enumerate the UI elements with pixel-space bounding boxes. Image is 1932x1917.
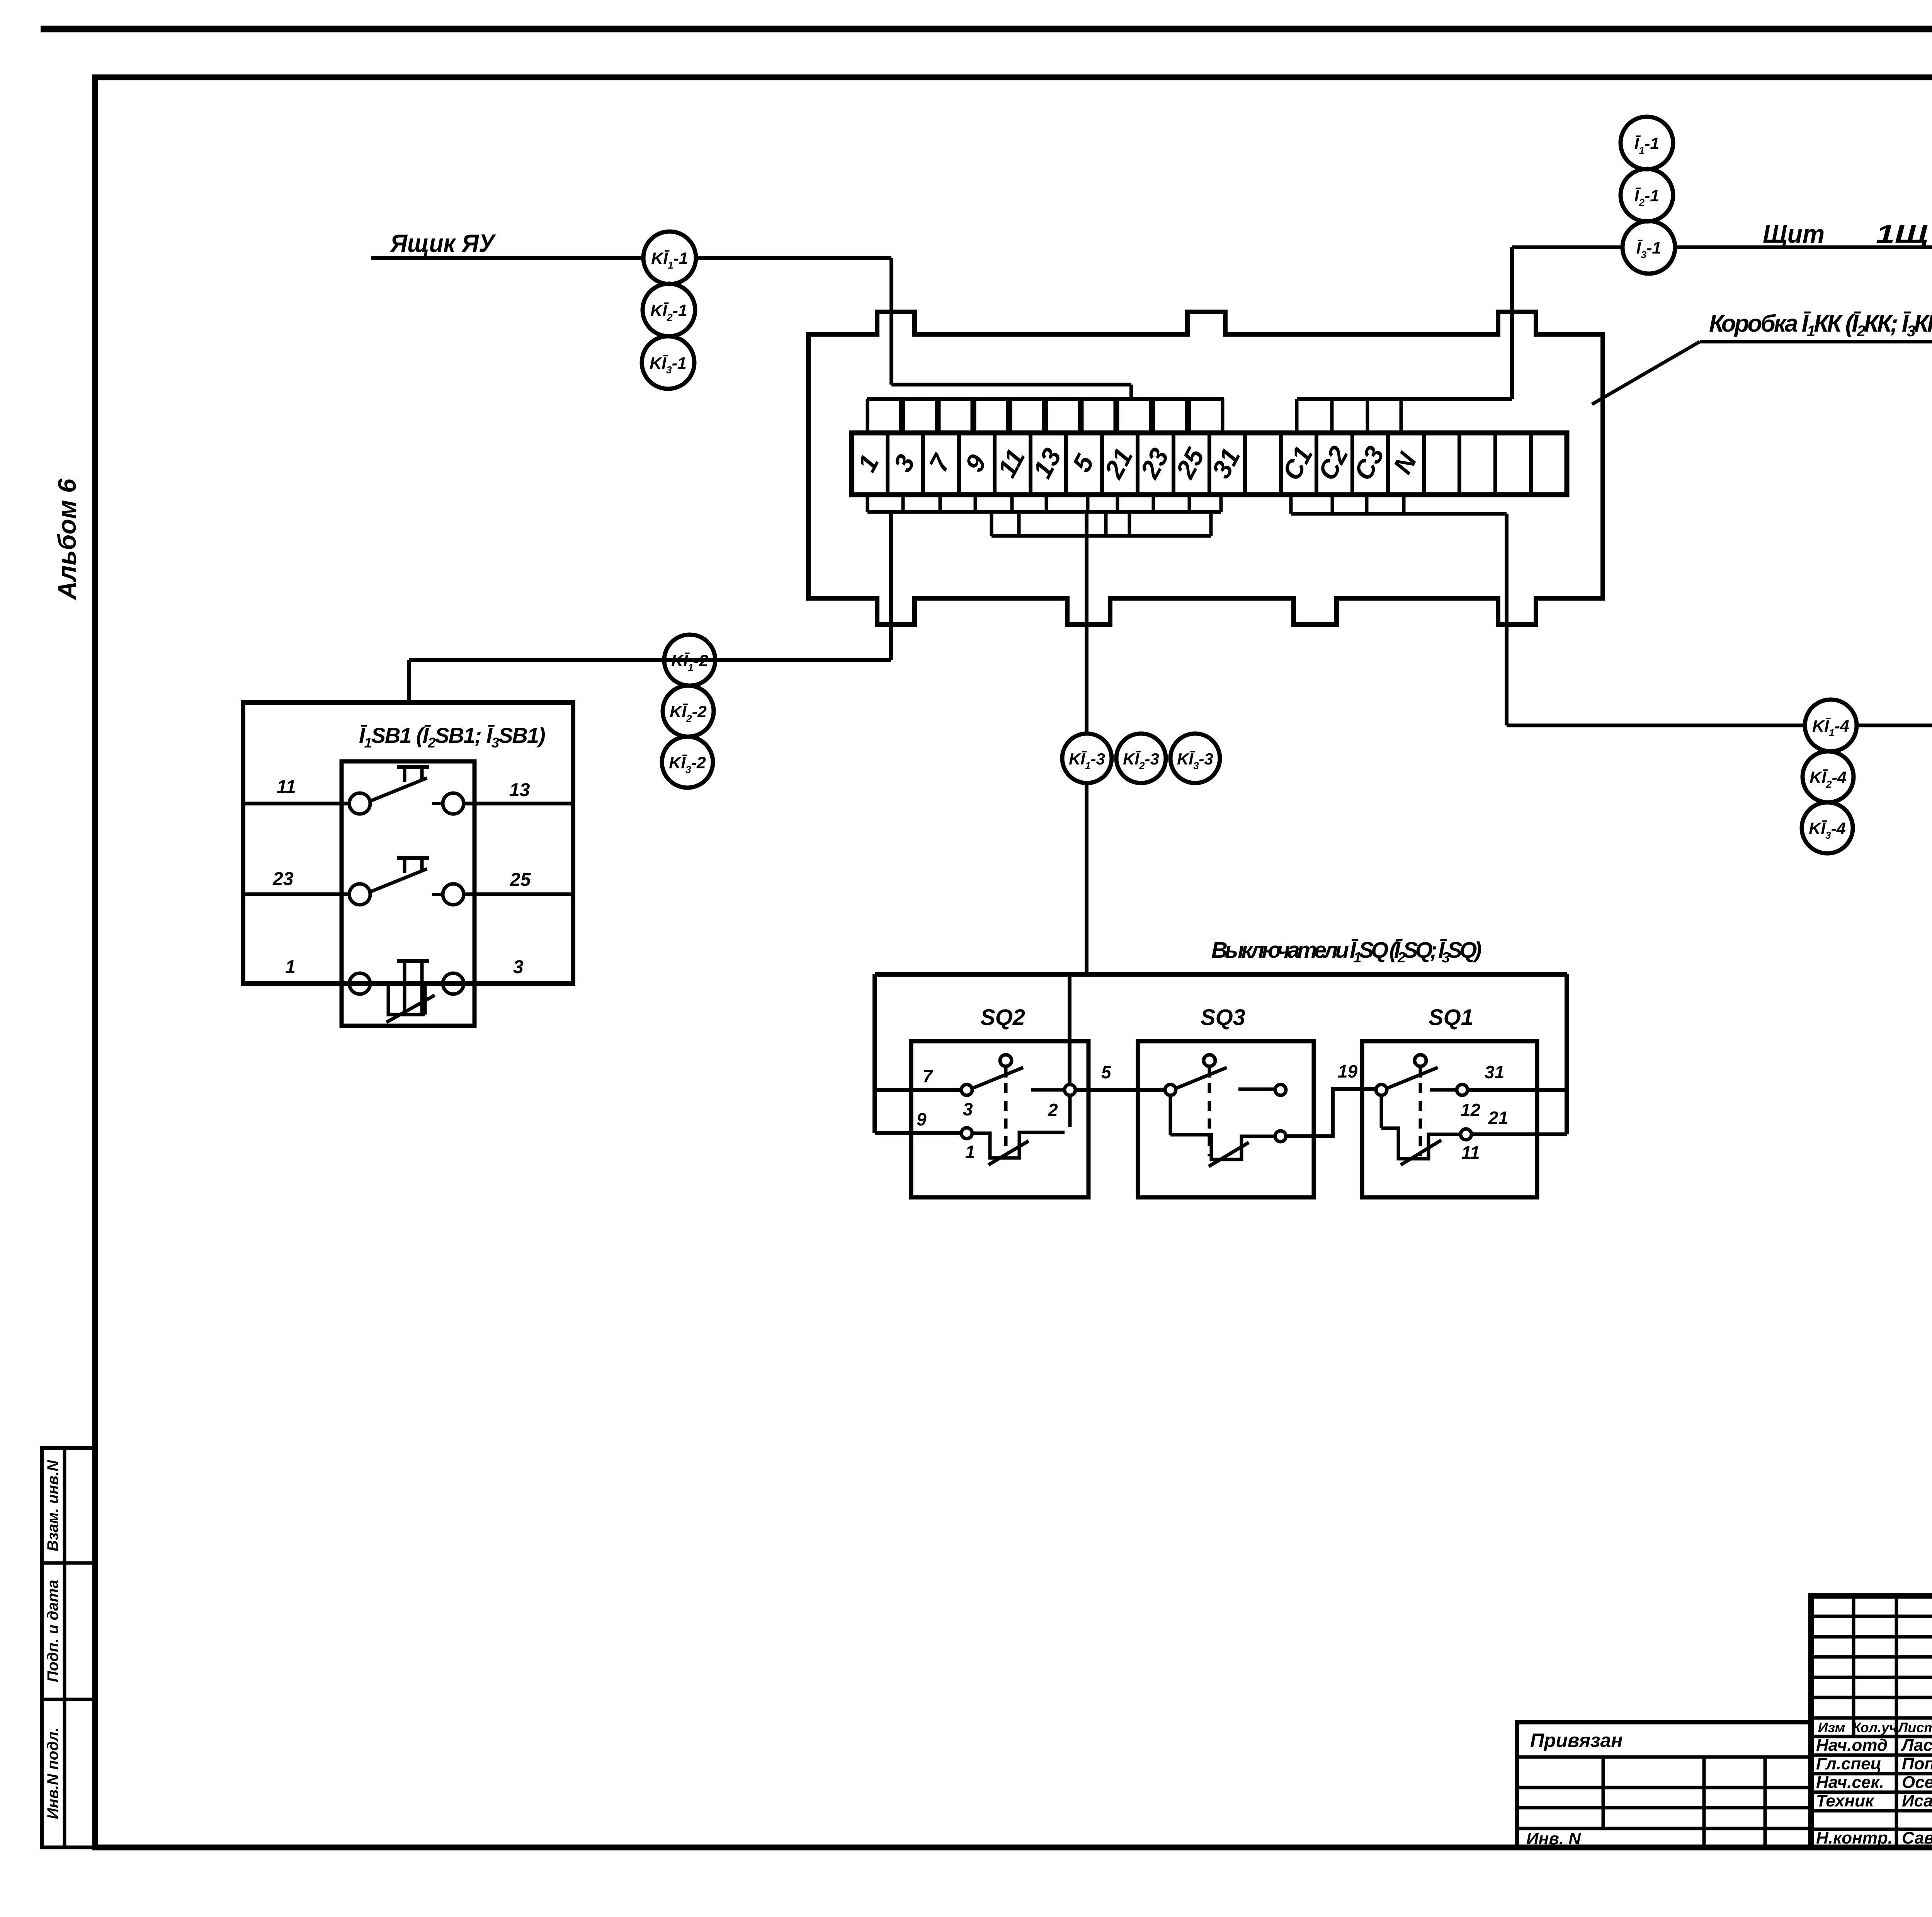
svg-text:Коробка Ī1КК (Ī2КК; Ī3КК): Коробка Ī1КК (Ī2КК; Ī3КК) xyxy=(1709,310,1932,340)
terminal N xyxy=(1388,447,1423,478)
signature rows grid xyxy=(1811,1737,1932,1847)
junction box Korobka I1KK outline xyxy=(808,312,1603,625)
cable marker KI1-1 xyxy=(643,232,696,284)
SQ1 inner box xyxy=(1362,1041,1537,1197)
cable marker KI3-3 xyxy=(1170,734,1220,783)
terminal 5 xyxy=(1067,449,1100,477)
svg-text:Нач.отд: Нач.отд xyxy=(1816,1736,1888,1755)
svg-text:7: 7 xyxy=(923,1066,934,1086)
svg-text:19: 19 xyxy=(1338,1061,1358,1081)
cable marker KI2-1 xyxy=(643,284,695,336)
label SQ1 xyxy=(1429,1005,1473,1030)
wire box to KI-2 row xyxy=(409,512,891,703)
title block revision grid xyxy=(1811,1596,1932,1847)
wire Yashchik YaU to KI1-1 xyxy=(371,256,643,260)
label Shchit 1Shch xyxy=(1763,220,1928,248)
wire box to KI-3 xyxy=(1085,512,1088,734)
revision header labels xyxy=(1818,1720,1932,1735)
svg-text:Ī1-1: Ī1-1 xyxy=(1634,134,1660,156)
wire box to KI-4 xyxy=(1507,514,1804,725)
stamp label Inv N podl xyxy=(44,1727,61,1819)
svg-text:Техник: Техник xyxy=(1816,1791,1875,1810)
pushbutton box I1SB1 outline xyxy=(243,703,573,984)
svg-text:Выключатели Ī1SQ (Ī2SQ; Ī3SQ): Выключатели Ī1SQ (Ī2SQ; Ī3SQ) xyxy=(1211,938,1481,966)
wire KI1-4 to motor xyxy=(1857,725,1932,763)
svg-text:Привязан: Привязан xyxy=(1530,1730,1623,1751)
svg-text:Ī2-1: Ī2-1 xyxy=(1634,187,1660,208)
svg-text:Н.контр.: Н.контр. xyxy=(1816,1828,1893,1847)
svg-text:25: 25 xyxy=(510,870,531,890)
top comb right group and bus to Shchit wire xyxy=(1297,399,1512,433)
SQ2 contact xyxy=(875,1055,1075,1165)
svg-text:Гл.спец: Гл.спец xyxy=(1816,1754,1881,1773)
svg-text:12: 12 xyxy=(1461,1100,1481,1120)
signature rows text xyxy=(1816,1736,1932,1847)
title block outer xyxy=(1811,1596,1932,1847)
terminal 23 xyxy=(1134,443,1175,484)
wire 19 xyxy=(1286,1061,1376,1136)
label Yashchik YaU xyxy=(389,229,496,257)
label SQ3 xyxy=(1201,1005,1245,1030)
limit switch assembly outer box xyxy=(875,974,1567,1134)
svg-text:2: 2 xyxy=(1048,1100,1058,1120)
wire 5 xyxy=(1075,1062,1165,1090)
SQ3 contact xyxy=(1165,1055,1286,1166)
svg-text:Нач.сек.: Нач.сек. xyxy=(1816,1773,1884,1792)
leader line to box xyxy=(1592,342,1700,404)
cable marker KI3-4 xyxy=(1802,802,1853,853)
svg-text:1Щ: 1Щ xyxy=(1876,220,1928,248)
svg-text:Ласыкин: Ласыкин xyxy=(1901,1736,1932,1755)
label Vyklyuchateli SQ xyxy=(1211,938,1481,966)
wire KI1-3 down to SQ box xyxy=(1070,783,1087,1084)
stamp label Podp i data xyxy=(44,1580,61,1682)
bottom comb under C1..N xyxy=(1291,495,1507,514)
terminal 11 xyxy=(992,444,1031,482)
terminal 31 xyxy=(1206,443,1246,483)
pushbutton inner body xyxy=(342,761,474,1026)
SB1 contact row 23-25 xyxy=(243,858,573,905)
svg-text:Изм: Изм xyxy=(1818,1720,1845,1735)
svg-text:Щит: Щит xyxy=(1763,220,1825,248)
terminal 13 xyxy=(1027,443,1067,483)
svg-text:SQ3: SQ3 xyxy=(1201,1005,1245,1030)
SQ1 contact xyxy=(1376,1055,1508,1165)
cable marker KI1-4 xyxy=(1805,700,1857,751)
SQ2 inner box xyxy=(911,1041,1088,1197)
svg-text:13: 13 xyxy=(509,780,530,800)
wire Shchit 1Shch riser xyxy=(1512,247,1623,399)
cable marker I3-1 xyxy=(1622,221,1675,274)
terminal C1 xyxy=(1277,441,1318,485)
cable marker KI1-3 xyxy=(1062,734,1112,783)
wire 31 to box edge xyxy=(1468,1088,1567,1092)
svg-text:SQ1: SQ1 xyxy=(1429,1005,1473,1030)
stamp label Vzam inv xyxy=(44,1460,61,1551)
bottom comb bus 2 xyxy=(992,512,1211,536)
wire 21 to box edge xyxy=(1471,1132,1567,1136)
terminal 25 xyxy=(1170,443,1210,484)
svg-text:Инв.N подл.: Инв.N подл. xyxy=(44,1727,61,1819)
svg-text:Ī3-1: Ī3-1 xyxy=(1636,239,1662,260)
svg-text:Попов: Попов xyxy=(1902,1754,1932,1773)
cable marker KI2-3 xyxy=(1116,734,1166,783)
svg-text:Подп. и дата: Подп. и дата xyxy=(44,1580,61,1682)
SB1 contact row 1-3 xyxy=(243,957,573,1022)
album label xyxy=(53,478,81,600)
svg-text:5: 5 xyxy=(1101,1062,1112,1082)
svg-text:Лист: Лист xyxy=(1897,1720,1932,1735)
cable marker KI1-2 xyxy=(664,635,715,686)
svg-text:1: 1 xyxy=(285,957,296,977)
SQ3 inner box xyxy=(1138,1041,1314,1197)
cable marker KI3-2 xyxy=(662,737,713,788)
cable marker KI3-1 xyxy=(642,336,694,389)
terminal 3 xyxy=(888,450,921,477)
bottom comb bus 1 xyxy=(867,495,1221,512)
label SQ2 xyxy=(980,1005,1025,1030)
cable marker KI2-2 xyxy=(663,686,714,737)
svg-text:21: 21 xyxy=(1488,1108,1508,1128)
top comb left group xyxy=(867,399,1224,433)
svg-text:1: 1 xyxy=(965,1142,975,1162)
label Korobka I1KK xyxy=(1700,310,1932,342)
paper top edge line xyxy=(41,26,1932,32)
SB1 contact row 11-13 xyxy=(243,767,573,814)
svg-text:Исаева: Исаева xyxy=(1902,1791,1932,1810)
svg-text:SQ2: SQ2 xyxy=(980,1005,1025,1030)
svg-text:3: 3 xyxy=(963,1099,973,1119)
terminal strip body xyxy=(852,433,1567,495)
wire KI1-1 to box drop xyxy=(696,258,1131,400)
cable marker I2-1 xyxy=(1621,169,1673,221)
svg-text:Савченко: Савченко xyxy=(1902,1828,1932,1847)
svg-text:Взам. инв.N: Взам. инв.N xyxy=(44,1460,61,1551)
cable marker KI2-4 xyxy=(1803,751,1854,802)
side stamp column xyxy=(42,1448,95,1847)
terminal C3 xyxy=(1348,441,1390,485)
terminal 1 xyxy=(852,450,885,477)
svg-text:Кол.уч: Кол.уч xyxy=(1852,1720,1897,1735)
terminal 21 xyxy=(1099,443,1139,484)
terminal 7 xyxy=(923,449,957,477)
wire I3-1 to panel xyxy=(1675,245,1932,249)
terminal 9 xyxy=(959,450,992,477)
svg-text:3: 3 xyxy=(513,957,524,977)
svg-text:Альбом 6: Альбом 6 xyxy=(53,478,81,600)
svg-text:9: 9 xyxy=(917,1109,927,1129)
svg-text:Инв. N: Инв. N xyxy=(1526,1829,1581,1848)
cable marker I1-1 xyxy=(1621,117,1673,169)
svg-text:11: 11 xyxy=(277,777,296,797)
svg-text:11: 11 xyxy=(1461,1142,1480,1163)
svg-text:Оселедец: Оселедец xyxy=(1902,1773,1932,1792)
svg-text:31: 31 xyxy=(1485,1062,1504,1082)
terminal C2 xyxy=(1312,441,1354,485)
label I1SB1 xyxy=(359,723,545,751)
svg-text:Ī1SB1 (Ī2SB1; Ī3SB1): Ī1SB1 (Ī2SB1; Ī3SB1) xyxy=(359,723,545,751)
privyazan table xyxy=(1517,1722,1811,1848)
svg-text:23: 23 xyxy=(272,869,294,889)
svg-text:Ящик ЯУ: Ящик ЯУ xyxy=(389,229,496,257)
